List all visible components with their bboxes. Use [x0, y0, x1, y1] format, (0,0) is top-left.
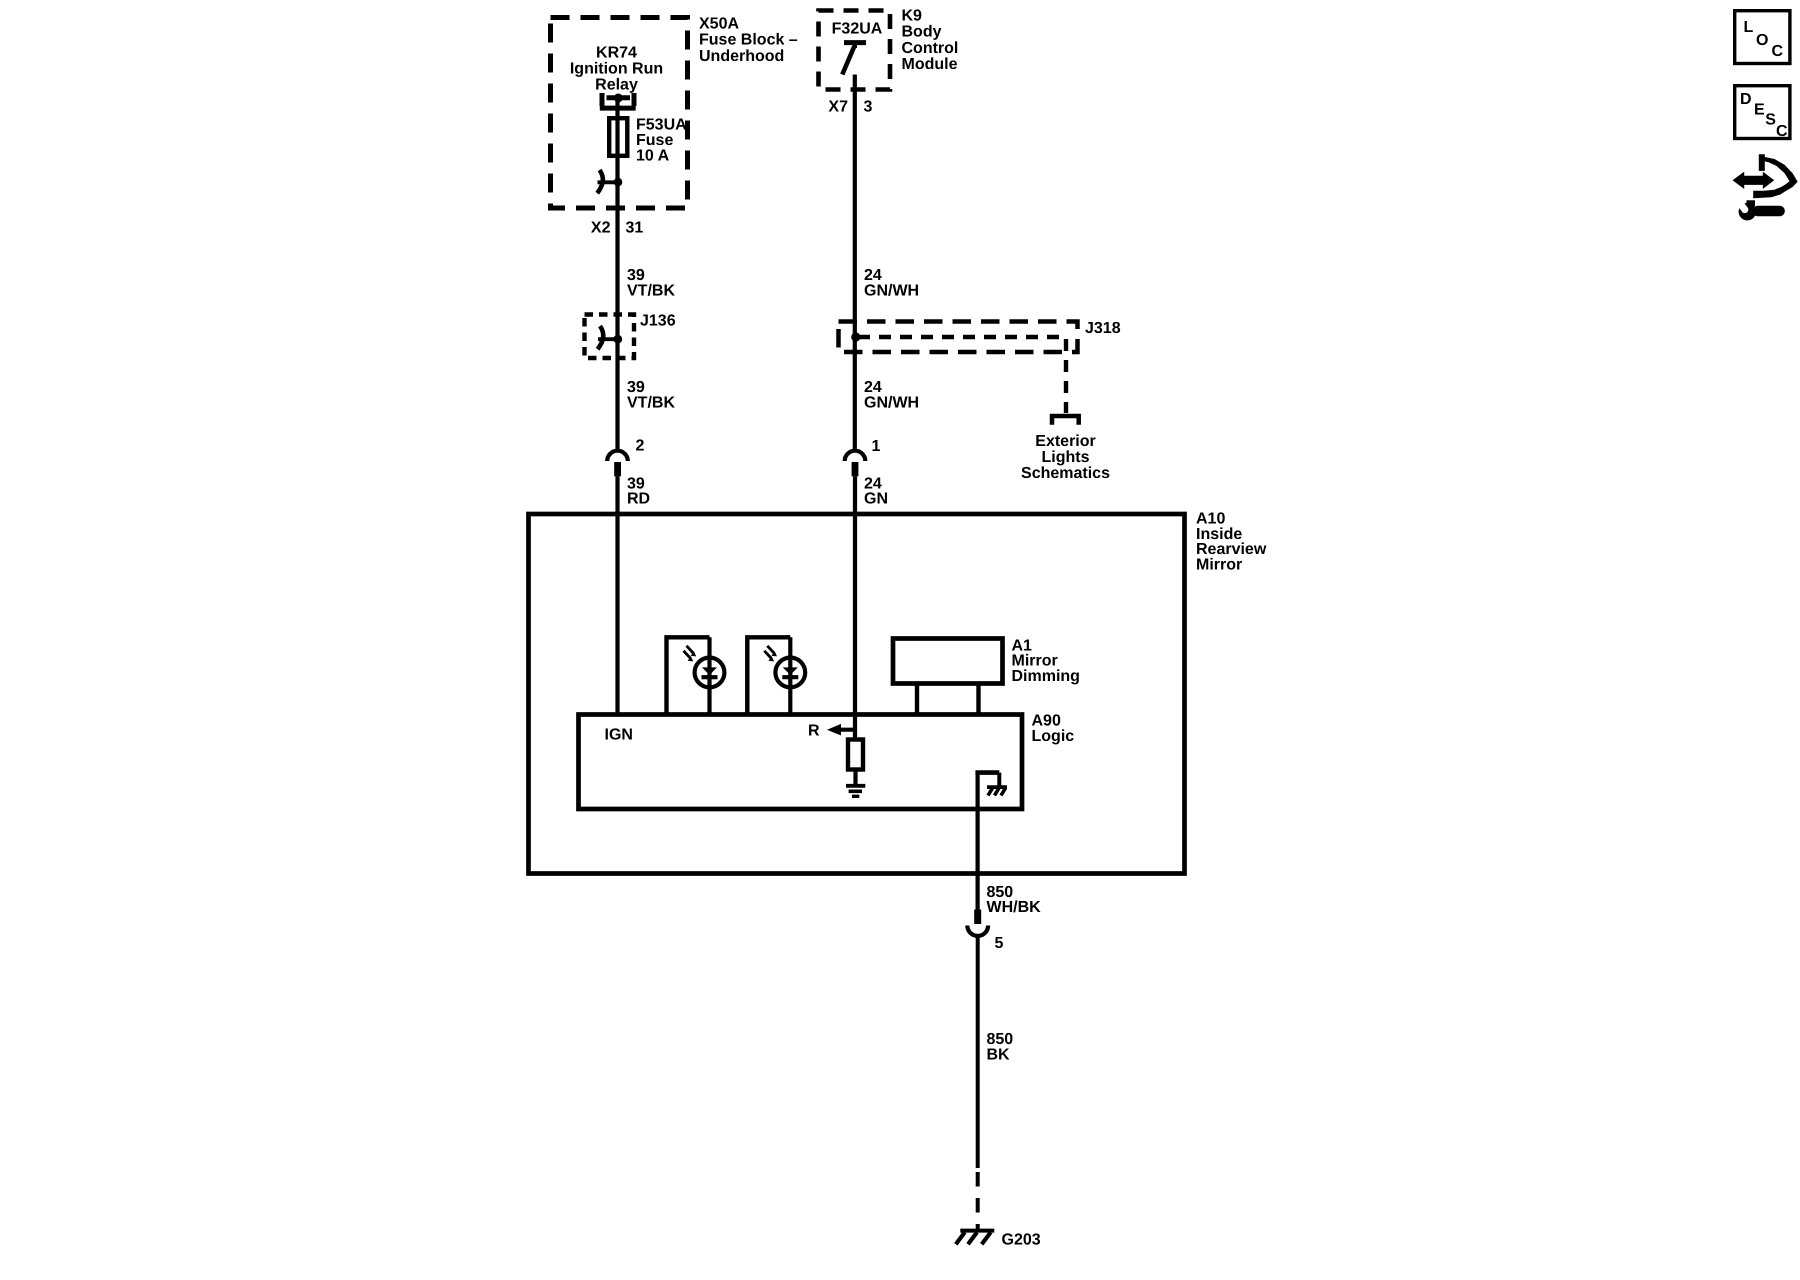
svg-text:Mirror: Mirror: [1196, 556, 1242, 573]
wire label 24 GN/WH lower: [864, 379, 919, 412]
svg-text:IGN: IGN: [605, 727, 633, 744]
svg-text:VT/BK: VT/BK: [627, 283, 675, 300]
svg-text:Lights: Lights: [1042, 449, 1090, 466]
wire into A10 left: [615, 476, 619, 714]
svg-text:F32UA: F32UA: [832, 21, 883, 38]
svg-text:Body: Body: [902, 24, 942, 41]
svg-text:O: O: [1756, 32, 1768, 49]
wire label 850 WH/BK: [987, 884, 1042, 916]
svg-text:J318: J318: [1085, 320, 1121, 337]
svg-text:1: 1: [872, 438, 881, 455]
DESC legend box: [1735, 86, 1790, 140]
wire 850 BK dashed: [976, 1172, 980, 1230]
svg-text:BK: BK: [987, 1046, 1011, 1063]
splice J136 dashed box: [585, 315, 635, 359]
wire 850 BK solid: [976, 936, 980, 1168]
switch contact inside fuse block: [597, 170, 622, 193]
svg-text:S: S: [1765, 112, 1776, 129]
svg-text:D: D: [1740, 91, 1752, 108]
photodiode sensor 2: [764, 646, 805, 688]
switch contact inside J136: [598, 326, 623, 349]
photodiode sensor 1 box: [667, 637, 710, 714]
label R: [808, 723, 820, 740]
wire label 39 VT/BK lower: [627, 379, 675, 412]
switch F32UA inside BCM: [842, 43, 866, 75]
svg-text:Module: Module: [902, 56, 958, 73]
wire into A10 middle: [853, 476, 857, 731]
label F53UA Fuse 10 A: [636, 117, 687, 165]
fuse block X50A dashed box: [551, 18, 688, 209]
label J318: [1085, 320, 1121, 337]
svg-text:Control: Control: [902, 40, 959, 57]
svg-text:X7: X7: [828, 99, 848, 116]
pin labels X2 31: [591, 220, 643, 237]
A1 mirror dimming box: [893, 639, 1003, 684]
off-page bracket exterior lights: [1052, 416, 1079, 425]
label A1 Mirror Dimming: [1012, 637, 1080, 684]
svg-text:3: 3: [864, 99, 873, 116]
svg-text:GN/WH: GN/WH: [864, 283, 919, 300]
navigation icon double arrow: [1733, 172, 1775, 189]
wire 39 VT/BK vertical from relay to connector 2: [615, 98, 619, 451]
svg-text:Logic: Logic: [1032, 728, 1075, 745]
svg-text:5: 5: [995, 935, 1004, 952]
pin label 5: [995, 935, 1004, 952]
label F32UA: [832, 21, 883, 38]
A10 inside rearview mirror box: [529, 514, 1185, 874]
svg-text:C: C: [1772, 43, 1784, 60]
svg-text:Relay: Relay: [595, 77, 638, 94]
resistor inside A90: [848, 730, 863, 770]
dashed splice branch wire to exterior lights: [858, 337, 1066, 413]
splice J318 dashed box: [839, 322, 1078, 353]
svg-text:F53UA: F53UA: [636, 117, 687, 134]
svg-text:KR74: KR74: [596, 45, 637, 62]
svg-text:Fuse Block –: Fuse Block –: [699, 32, 798, 49]
wire label 39 RD: [627, 476, 650, 508]
svg-text:24: 24: [864, 379, 882, 396]
LOC legend box: [1735, 11, 1790, 64]
svg-text:R: R: [808, 723, 820, 740]
svg-text:10 A: 10 A: [636, 148, 670, 165]
photodiode sensor 1: [684, 646, 725, 688]
svg-text:Dimming: Dimming: [1012, 668, 1080, 685]
connector pin 1 symbol: [845, 451, 866, 477]
svg-text:Schematics: Schematics: [1021, 465, 1110, 482]
label A90 Logic: [1032, 713, 1075, 746]
svg-text:VT/BK: VT/BK: [627, 395, 675, 412]
junction dot J318: [851, 332, 860, 341]
svg-text:A90: A90: [1032, 713, 1061, 730]
connector pin 5 symbol: [967, 910, 988, 936]
ground G203: [956, 1231, 995, 1245]
photodiode sensor 1 wire: [707, 637, 711, 714]
wire label 39 VT/BK upper: [627, 267, 675, 300]
navigation icon outline arrow: [1753, 154, 1797, 198]
label Exterior Lights Schematics: [1021, 433, 1110, 482]
connector pin 2 symbol: [607, 451, 628, 477]
pin label 2: [636, 438, 645, 455]
label J136: [640, 313, 676, 330]
svg-text:E: E: [1754, 101, 1765, 118]
svg-text:Exterior: Exterior: [1035, 433, 1095, 450]
A90 logic box: [579, 715, 1023, 810]
svg-text:GN: GN: [864, 491, 888, 508]
svg-text:RD: RD: [627, 491, 650, 508]
svg-text:39: 39: [627, 379, 645, 396]
svg-text:39: 39: [627, 267, 645, 284]
svg-text:WH/BK: WH/BK: [987, 899, 1042, 916]
svg-text:X50A: X50A: [699, 15, 739, 32]
svg-text:K9: K9: [902, 7, 923, 24]
wire label 24 GN: [864, 476, 888, 508]
svg-text:L: L: [1744, 19, 1754, 36]
relay KR74 contact symbol: [600, 93, 636, 108]
svg-text:Ignition Run: Ignition Run: [570, 61, 663, 78]
BCM K9 dashed box: [819, 11, 891, 90]
wire label 24 GN/WH upper: [864, 267, 919, 300]
svg-text:31: 31: [626, 220, 644, 237]
navigation icon wrench: [1734, 198, 1785, 221]
photodiode sensor 2 wire: [788, 637, 792, 714]
label X50A Fuse Block - Underhood: [699, 15, 798, 65]
fuse F53UA 10A: [609, 118, 627, 156]
A1 stub wires: [917, 684, 979, 715]
chassis ground inside A90: [975, 773, 1007, 796]
pin label IGN: [605, 727, 633, 744]
photodiode sensor 2 box: [747, 637, 790, 714]
svg-text:GN/WH: GN/WH: [864, 395, 919, 412]
label A10 Inside Rearview Mirror: [1196, 511, 1267, 574]
ground symbol inside A90: [846, 770, 865, 797]
pin labels X7 3: [828, 99, 872, 116]
wire 24 GN/WH vertical from BCM to connector 1: [853, 75, 857, 452]
wire 850 WH/BK from chassis ground to connector 5: [975, 773, 979, 910]
R arrow: [827, 724, 857, 736]
svg-text:2: 2: [636, 438, 645, 455]
svg-text:Underhood: Underhood: [699, 48, 784, 65]
wire label 850 BK: [987, 1031, 1014, 1063]
label K9 Body Control Module: [902, 7, 959, 73]
svg-text:G203: G203: [1002, 1231, 1041, 1248]
label G203: [1002, 1231, 1041, 1248]
svg-text:J136: J136: [640, 313, 676, 330]
svg-text:24: 24: [864, 267, 882, 284]
label KR74 Ignition Run Relay: [570, 45, 663, 94]
pin label 1: [872, 438, 881, 455]
svg-text:C: C: [1776, 123, 1788, 140]
svg-text:X2: X2: [591, 220, 611, 237]
